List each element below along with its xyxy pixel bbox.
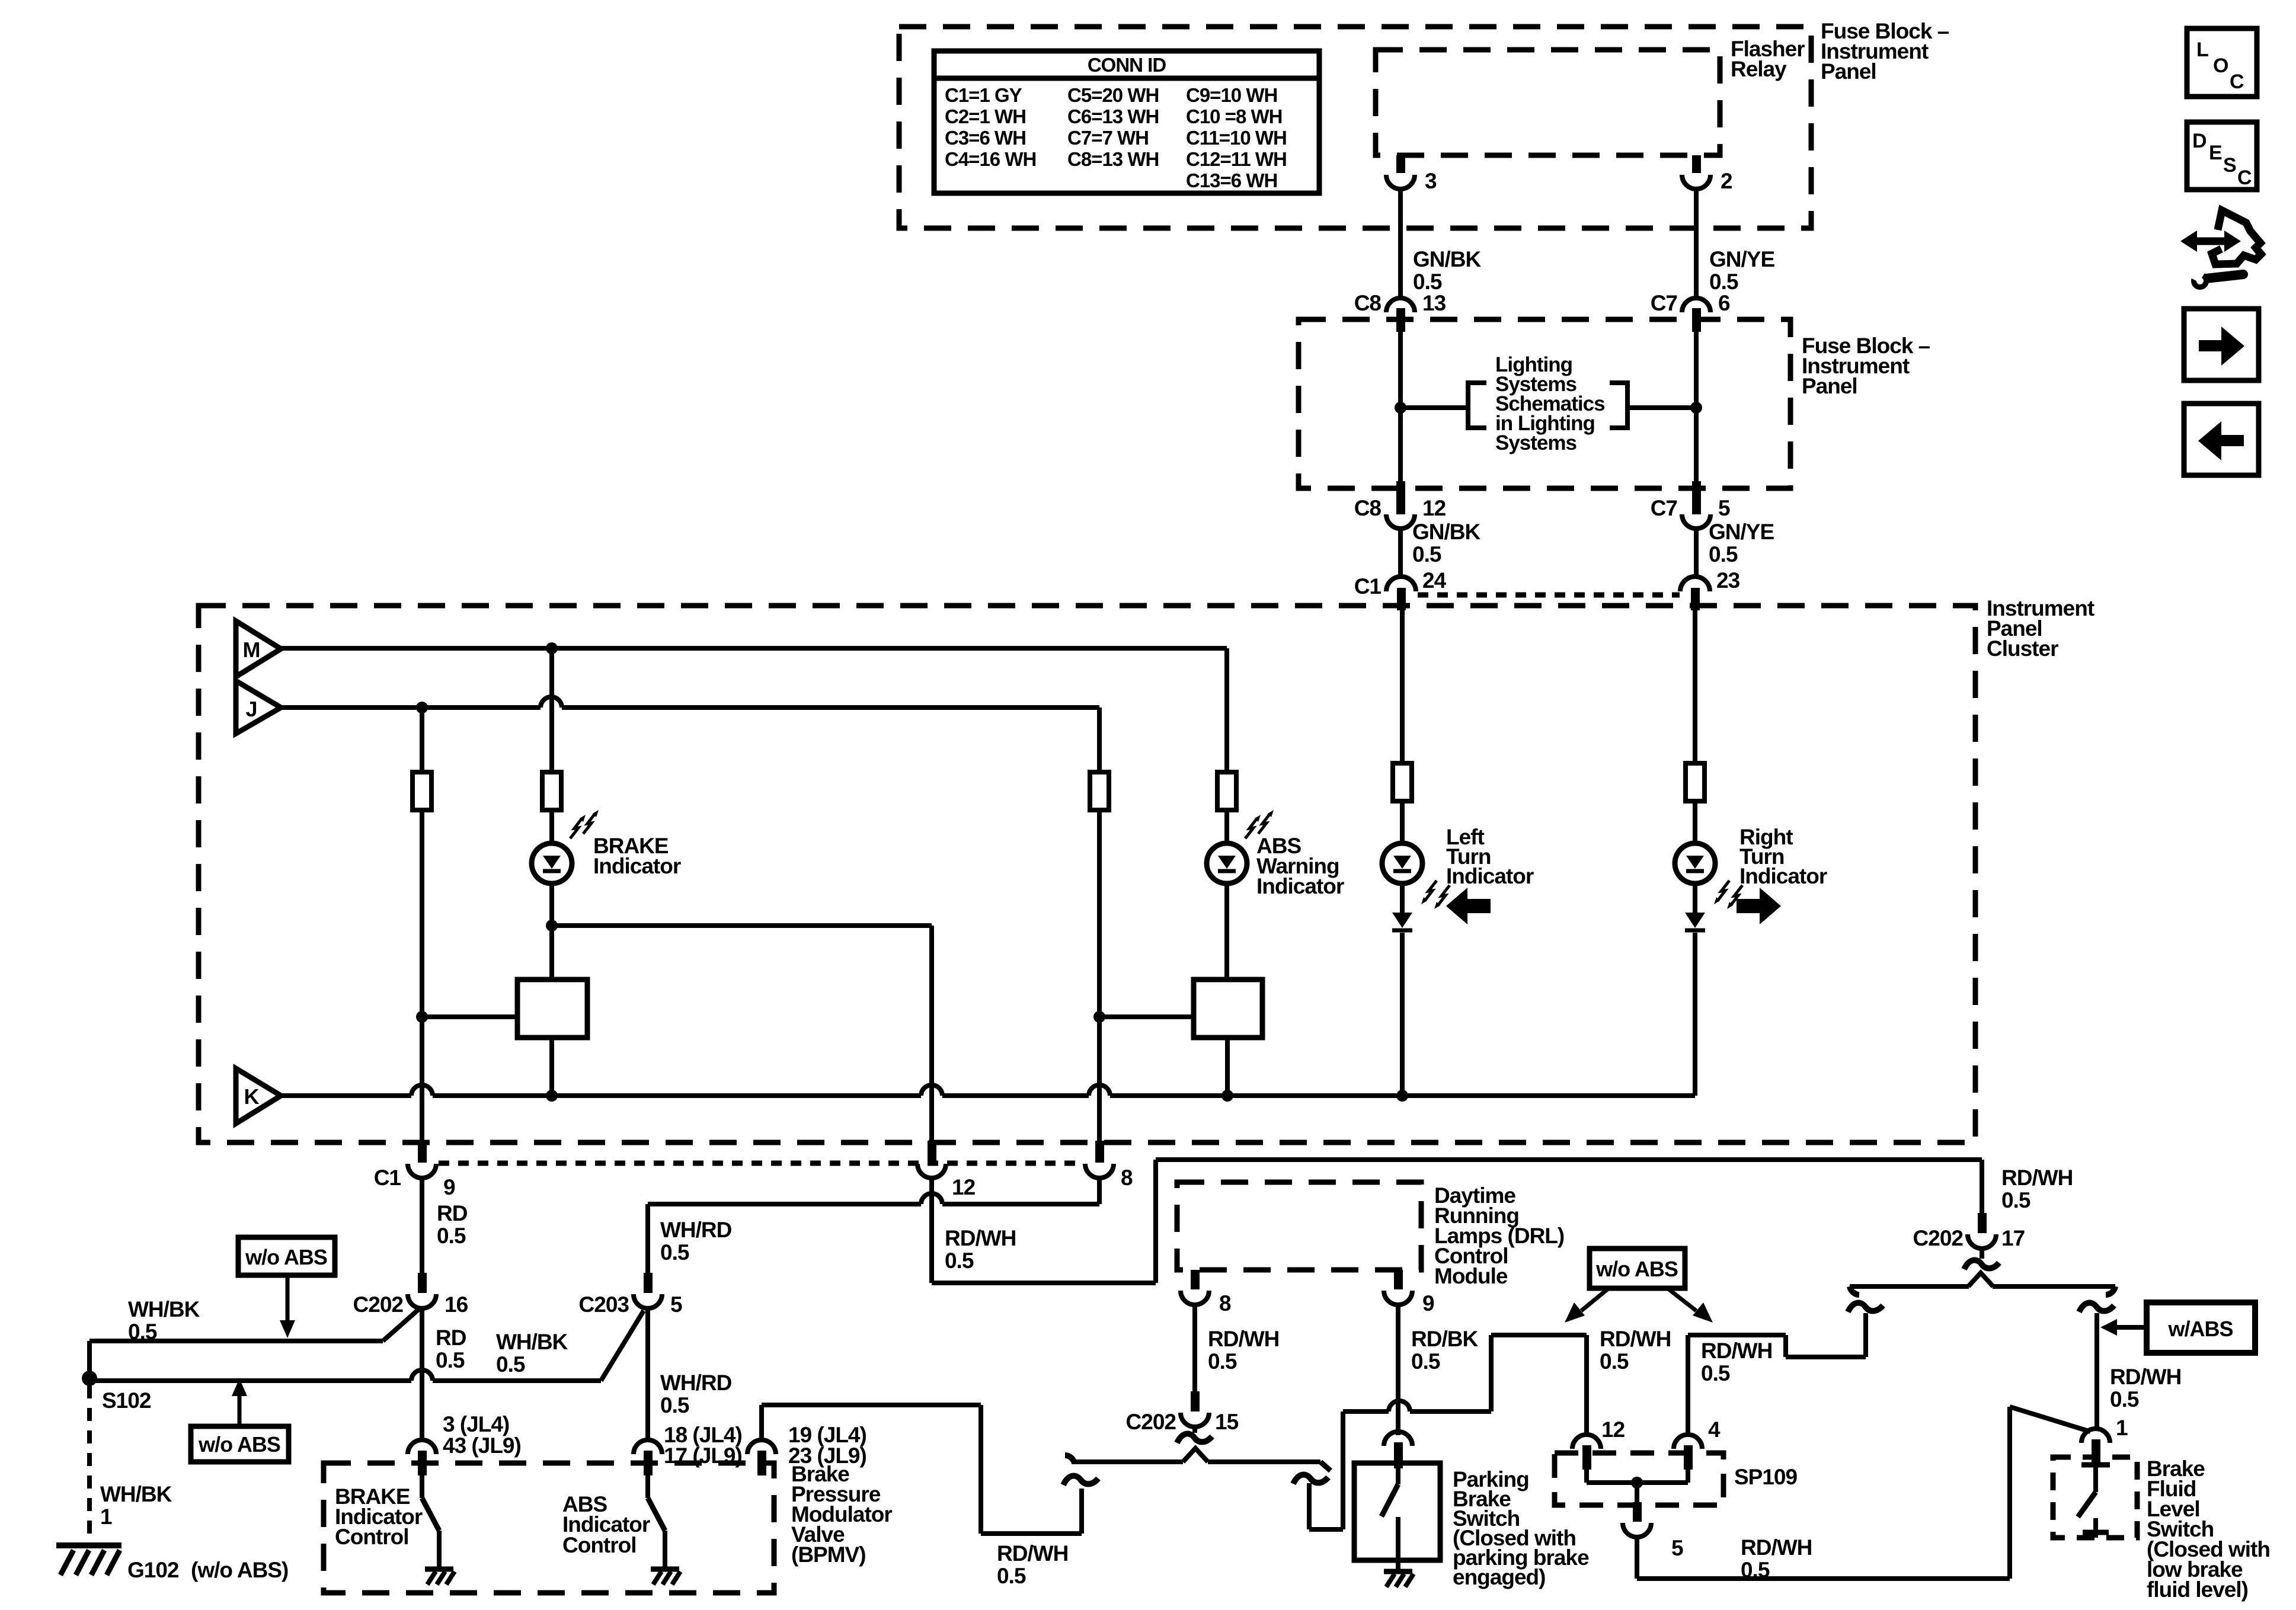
svg-text:GN/BK: GN/BK [1413, 247, 1482, 271]
right turn LED lightning bolts [1718, 881, 1729, 901]
svg-text:M: M [243, 638, 260, 662]
svg-text:S102: S102 [102, 1388, 151, 1413]
svg-text:w/ABS: w/ABS [2167, 1317, 2233, 1341]
svg-text:9: 9 [1422, 1291, 1434, 1315]
svg-text:C7=7 WH: C7=7 WH [1067, 127, 1149, 149]
svg-text:1: 1 [2116, 1416, 2128, 1440]
CONN ID table header divider [934, 76, 1319, 81]
wire resistor to right turn LED [1693, 801, 1697, 844]
wire brake branch upper [549, 648, 554, 772]
wire inside fuse block left [1398, 332, 1403, 482]
svg-text:C6=13 WH: C6=13 WH [1067, 105, 1159, 127]
svg-text:C: C [2237, 167, 2252, 189]
svg-text:Panel: Panel [1802, 374, 1857, 398]
rail w/ABS (left part) [1850, 1284, 1969, 1289]
inline hook rail2171 left [1850, 1286, 1859, 1295]
flasher relay pin 2 [1692, 155, 1701, 173]
rail peak under C202-17 [1968, 1273, 1993, 1286]
svg-text:RD/WH: RD/WH [1741, 1535, 1812, 1560]
wire split to SP109 pin 12 [1584, 1335, 1589, 1435]
diagonal into brake fluid pin 1 [2010, 1407, 2090, 1432]
left arrow icon [1446, 888, 1491, 924]
svg-text:12: 12 [1601, 1417, 1625, 1442]
svg-text:WH/RD: WH/RD [660, 1218, 732, 1242]
SP109 pin 4 [1674, 1435, 1702, 1449]
junction dot brake output [546, 920, 558, 932]
wire C202-17 drop [1980, 1160, 1984, 1213]
svg-text:C7: C7 [1651, 496, 1677, 520]
svg-text:C203: C203 [579, 1292, 629, 1317]
junction dot x1855 module2 tap [1093, 1011, 1105, 1023]
svg-text:fluid level): fluid level) [2147, 1577, 2248, 1602]
wire long RD/WH rail to C202-17 [1156, 1157, 1982, 1162]
connector C1 pin 12 [928, 1141, 936, 1163]
svg-text:G102: G102 [127, 1558, 179, 1582]
wire GN/YE pin2 to C7-6 [1694, 189, 1699, 299]
junction dot K at brake module [546, 1090, 558, 1102]
svg-text:Panel: Panel [1821, 59, 1876, 84]
left turn LED lightning bolts [1425, 881, 1437, 901]
svg-text:C12=11 WH: C12=11 WH [1186, 148, 1287, 170]
DRL pin 8 [1191, 1270, 1200, 1289]
svg-text:w/o ABS: w/o ABS [245, 1245, 327, 1269]
junction dot left fuse wire [1395, 402, 1406, 414]
wire up to w/o ABS split [1489, 1335, 1494, 1411]
svg-text:0.5: 0.5 [1208, 1349, 1237, 1374]
svg-text:D: D [2192, 130, 2207, 152]
svg-text:8: 8 [1219, 1291, 1231, 1315]
ABS warning indicator LED [1207, 843, 1247, 884]
DRL pin 9 [1394, 1270, 1403, 1289]
w/ABS arrow [2113, 1325, 2144, 1330]
svg-text:C2=1 WH: C2=1 WH [945, 105, 1026, 127]
svg-text:23 (JL9): 23 (JL9) [788, 1443, 866, 1468]
wire to lighting systems note right [1627, 405, 1696, 410]
svg-text:WH/BK: WH/BK [128, 1297, 200, 1321]
wire M rail [281, 646, 1227, 651]
svg-text:C202: C202 [1913, 1226, 1964, 1250]
flasher relay dashed box [1376, 50, 1720, 155]
wire resistor to BRAKE LED [549, 810, 554, 844]
junction dot K at left turn [1396, 1090, 1408, 1102]
parking brake switch blade [1396, 1468, 1400, 1484]
wire C1-12 down [929, 1178, 934, 1283]
w/ABS callout box [2147, 1302, 2255, 1353]
svg-text:Control: Control [562, 1533, 637, 1557]
wire M corner branch x2070 upper [1224, 648, 1229, 772]
svg-text:0.5: 0.5 [496, 1352, 525, 1377]
svg-text:0.5: 0.5 [660, 1240, 689, 1265]
connector pin 18(JL4)/17(JL9) [634, 1440, 662, 1454]
wire line1 corner down to S102 [87, 1341, 92, 1378]
brake fluid pin 1 connector [2081, 1429, 2110, 1443]
wire left turn LED to diode [1400, 884, 1405, 913]
wire right turn diode to K [1693, 933, 1697, 1096]
svg-text:0.5: 0.5 [660, 1393, 689, 1417]
svg-text:C202: C202 [353, 1292, 404, 1317]
svg-text:17: 17 [2001, 1226, 2025, 1250]
svg-text:L: L [2196, 39, 2208, 61]
svg-text:13: 13 [1422, 291, 1446, 315]
junction dot M rail at brake branch [546, 642, 558, 654]
car diagnosis icon [2212, 210, 2261, 264]
resistor x1855 [1090, 772, 1109, 810]
svg-text:Relay: Relay [1731, 57, 1787, 81]
right turn indicator LED [1675, 843, 1715, 884]
svg-text:2: 2 [1721, 169, 1732, 193]
wire WH/BK line1 [89, 1339, 383, 1343]
svg-text:Indicator: Indicator [1256, 874, 1344, 898]
brake indicator control switch [420, 1475, 424, 1498]
brake fluid switch contacts [2081, 1462, 2110, 1468]
svg-text:J: J [245, 697, 257, 721]
wire J rail segment 1 [281, 705, 541, 710]
rail RD/WH bottom (right part) [1208, 1459, 1320, 1464]
svg-text:RD/WH: RD/WH [997, 1541, 1068, 1566]
wire inside fuse block right [1694, 332, 1699, 482]
svg-text:Control: Control [335, 1525, 409, 1549]
ABS LED lightning bolts [1245, 818, 1257, 838]
connector C7 pin 5 [1692, 481, 1701, 514]
left turn indicator LED [1382, 843, 1422, 884]
wire WH/RD C203-5 down to BPMV pin [645, 1308, 650, 1442]
BRAKE indicator LED [532, 843, 572, 884]
CONN ID table box [934, 51, 1319, 193]
svg-text:C202: C202 [1126, 1410, 1176, 1434]
resistor x712 [412, 772, 431, 810]
wire module1 bottom to K [549, 1038, 554, 1096]
svg-text:12: 12 [1422, 496, 1446, 520]
svg-text:C8=13 WH: C8=13 WH [1067, 148, 1159, 170]
BRAKE LED lightning bolts [570, 818, 582, 838]
instrument panel cluster dashed box [199, 606, 1975, 1142]
wire right turn branch upper [1693, 610, 1697, 763]
wire pin19 up and over [759, 1405, 764, 1440]
svg-text:0.5: 0.5 [2001, 1188, 2030, 1212]
svg-text:w/o ABS: w/o ABS [198, 1432, 280, 1457]
svg-text:S: S [2223, 154, 2236, 177]
wire module1 left tap [422, 1014, 517, 1019]
svg-text:0.5: 0.5 [1709, 270, 1738, 294]
svg-text:engaged): engaged) [1453, 1565, 1545, 1589]
wire RD C1-9 to C202-16 [420, 1178, 424, 1273]
fuse block instrument panel (top) dashed box [899, 27, 1811, 228]
svg-text:CONN ID: CONN ID [1088, 54, 1166, 76]
svg-text:5: 5 [1718, 496, 1730, 520]
left arrow icon box [2184, 404, 2259, 475]
svg-text:0.5: 0.5 [128, 1320, 157, 1344]
svg-text:0.5: 0.5 [1411, 1349, 1440, 1374]
connector C8 pin 12 [1396, 481, 1405, 514]
svg-text:Indicator: Indicator [593, 854, 681, 878]
wire GN/BK C8-12 to C1-24 [1398, 526, 1403, 577]
inline hook rail2171 right [2106, 1286, 2115, 1295]
wire branch x712 upper [420, 708, 424, 772]
svg-text:C10 =8 WH: C10 =8 WH [1186, 105, 1282, 127]
svg-text:23: 23 [1716, 568, 1740, 593]
svg-text:SP109: SP109 [1734, 1465, 1798, 1489]
connector C8 pin 13 [1386, 298, 1415, 312]
svg-text:C8: C8 [1354, 496, 1382, 520]
inline hook under C202-15 [1192, 1426, 1197, 1433]
wire WH/BK dashed to G102 [87, 1385, 92, 1541]
wire C1-8 to WH/RD corner [942, 1202, 1099, 1206]
module 1 box [517, 980, 587, 1038]
wire to lighting systems note left [1400, 405, 1468, 410]
svg-text:C1=1 GY: C1=1 GY [945, 84, 1022, 106]
connector triangle M [236, 621, 281, 677]
flasher relay pin 3 [1396, 155, 1405, 173]
svg-text:w/o ABS: w/o ABS [1595, 1257, 1678, 1281]
rail peak under C202-15 [1183, 1448, 1208, 1462]
brake fluid level switch dashed box [2053, 1457, 2137, 1538]
SP109 dashed box [1555, 1453, 1723, 1505]
svg-text:5: 5 [1671, 1536, 1683, 1560]
wire J corner branch x1855 [1097, 708, 1102, 772]
svg-text:C8: C8 [1354, 291, 1382, 315]
svg-text:0.5: 0.5 [997, 1564, 1026, 1588]
wire RD/WH SP109-5 bottom run [1635, 1537, 1639, 1579]
wire brake output to pin12 branch [552, 923, 932, 928]
svg-text:O: O [2213, 55, 2228, 77]
wire WH/BK line2 [89, 1378, 411, 1383]
rail w/ABS (right part) [1993, 1284, 2115, 1289]
bracket right [1610, 383, 1627, 428]
svg-text:12: 12 [952, 1175, 976, 1199]
svg-text:RD/WH: RD/WH [1600, 1327, 1671, 1351]
wire rail to brake fluid pin 1 [2094, 1313, 2099, 1429]
w/o ABS arrow left [1581, 1289, 1607, 1311]
SP109 stem to pin 5 [1635, 1483, 1639, 1506]
module 2 box [1194, 980, 1262, 1038]
w/o ABS callout box 1 [238, 1237, 335, 1275]
diagonal WH/BK into C202-16 [383, 1310, 418, 1341]
wire parking brake to ground [1396, 1560, 1400, 1570]
svg-text:WH/BK: WH/BK [496, 1330, 568, 1354]
svg-text:4: 4 [1708, 1417, 1721, 1442]
w/o ABS arrow right [1669, 1289, 1696, 1311]
svg-text:RD: RD [436, 1326, 466, 1350]
w/o ABS callout box 2 [191, 1426, 289, 1462]
svg-text:0.5: 0.5 [1412, 542, 1441, 566]
wire GN/YE C7-5 to C1-23 [1694, 526, 1699, 577]
wire BRAKE LED to module1 [549, 884, 554, 980]
wire resistor to left turn LED [1400, 801, 1405, 844]
svg-text:0.5: 0.5 [1701, 1361, 1730, 1385]
connector C202 pin 16 [418, 1273, 427, 1293]
connector C1 pin 23 [1680, 577, 1710, 591]
resistor brake branch [542, 772, 561, 810]
wire J rail segment 2 [562, 705, 1099, 710]
svg-text:0.5: 0.5 [437, 1224, 466, 1248]
svg-text:RD/WH: RD/WH [945, 1226, 1016, 1250]
svg-text:16: 16 [445, 1292, 468, 1317]
ground abs indicator control [651, 1567, 679, 1572]
svg-text:WH/BK: WH/BK [100, 1482, 172, 1506]
svg-text:17 (JL9): 17 (JL9) [664, 1443, 742, 1468]
junction dot right fuse wire [1690, 402, 1702, 414]
svg-text:RD/WH: RD/WH [2110, 1365, 2181, 1389]
wire C1-12 path bottom jog [932, 1281, 1156, 1285]
w/o ABS arrow 2 [238, 1394, 242, 1426]
dotted line between C1-24 and C1-23 [1418, 593, 1680, 598]
inline connector at rail left end [1063, 1476, 1098, 1485]
wire RD/WH DRL-8 to C202-15 [1192, 1305, 1197, 1391]
svg-text:C11=10 WH: C11=10 WH [1186, 127, 1287, 149]
svg-text:C9=10 WH: C9=10 WH [1186, 84, 1277, 106]
connector C203 pin 5 [644, 1273, 653, 1293]
svg-text:Indicator: Indicator [1739, 864, 1827, 888]
wire left turn branch upper [1400, 610, 1405, 763]
SP109 pin 5 [1633, 1502, 1642, 1522]
svg-text:C7: C7 [1651, 291, 1677, 315]
left turn diode [1392, 913, 1412, 928]
SP109 pin 12 [1572, 1435, 1601, 1449]
wire pin12 branch vertical [929, 926, 934, 1141]
ground G102 [56, 1542, 121, 1548]
connector C7 pin 6 [1682, 298, 1710, 312]
ground brake indicator control [425, 1567, 453, 1572]
fuse block instrument panel (middle) dashed box [1299, 319, 1790, 488]
svg-text:C4=16 WH: C4=16 WH [945, 148, 1036, 170]
wire hook down and over [1307, 1483, 1312, 1529]
resistor right turn [1686, 763, 1705, 801]
svg-text:3: 3 [1425, 169, 1437, 193]
svg-text:3 (JL4): 3 (JL4) [443, 1412, 509, 1436]
wire K rail [281, 1093, 411, 1098]
wire right turn LED to diode [1693, 884, 1697, 913]
svg-text:5: 5 [670, 1292, 682, 1317]
inline hook under C202-17 [1980, 1247, 1984, 1259]
svg-text:0.5: 0.5 [2110, 1387, 2139, 1411]
connector pin 3(JL4)/43(JL9) [408, 1440, 436, 1454]
wire riser to rail 2171 [1863, 1313, 1868, 1357]
svg-text:K: K [244, 1084, 260, 1109]
wire resistor to ABS LED [1224, 810, 1229, 844]
abs indicator control switch [645, 1475, 650, 1498]
svg-text:0.5: 0.5 [1709, 542, 1738, 566]
LOC icon box [2187, 28, 2257, 97]
svg-text:9: 9 [443, 1175, 455, 1199]
svg-text:Indicator: Indicator [1446, 864, 1534, 888]
SP109 internal bus [1584, 1470, 1589, 1483]
svg-text:(BPMV): (BPMV) [791, 1542, 866, 1567]
splice S102 [82, 1371, 97, 1386]
wire SP109 pin4 jog right [1686, 1335, 1690, 1435]
rail RD/WH bottom (left part) [1072, 1459, 1183, 1464]
svg-text:Cluster: Cluster [1987, 636, 2058, 661]
connector C1 pin 8 [1095, 1141, 1104, 1163]
dotted line along C1 bottom pins [439, 1161, 1083, 1166]
wire RD C202-16 down to BPMV pin [420, 1308, 424, 1442]
connector C1 pin 9 [418, 1141, 427, 1163]
wire module2 left tap [1099, 1014, 1194, 1019]
svg-text:RD/WH: RD/WH [1701, 1339, 1772, 1363]
svg-text:RD: RD [437, 1201, 468, 1225]
SP109 junction dot [1631, 1477, 1643, 1489]
wire module2 bottom to K [1225, 1038, 1230, 1096]
ground parking brake switch [1384, 1569, 1412, 1574]
svg-text:C13=6 WH: C13=6 WH [1186, 169, 1277, 191]
inline hook right of rail [1293, 1475, 1328, 1484]
svg-text:(w/o ABS): (w/o ABS) [191, 1558, 288, 1582]
resistor x2070 [1217, 772, 1236, 810]
connector C202 pin 15 [1191, 1391, 1200, 1411]
svg-text:0.5: 0.5 [1600, 1349, 1629, 1374]
junction dot x712 module1 tap [416, 1011, 428, 1023]
wire branch x712 lower [420, 810, 424, 1141]
svg-text:GN/YE: GN/YE [1709, 247, 1774, 271]
wire RD/BK DRL-9 down [1396, 1305, 1400, 1435]
right arrow icon [1737, 888, 1781, 924]
parking brake switch box [1354, 1463, 1440, 1560]
connector C202 pin 17 [1978, 1213, 1987, 1233]
svg-text:43 (JL9): 43 (JL9) [443, 1433, 521, 1458]
w/o ABS callout box 3 [1590, 1249, 1685, 1288]
junction dot K at abs module [1221, 1090, 1233, 1102]
connector pin 19(JL4)/23(JL9) [747, 1440, 776, 1454]
wire WH/RD vertical [645, 1204, 650, 1273]
wire pin4 top jog [1688, 1333, 1786, 1337]
svg-text:C1: C1 [374, 1166, 401, 1190]
connector triangle K [236, 1068, 281, 1124]
wire C1-8 down [1097, 1178, 1102, 1204]
hop J rail over brake branch [541, 697, 562, 708]
svg-text:RD/WH: RD/WH [1208, 1327, 1279, 1351]
svg-text:8: 8 [1121, 1166, 1133, 1190]
connector triangle J [236, 681, 281, 734]
brake-abs indicator control dashed box [324, 1463, 774, 1593]
svg-text:0.5: 0.5 [945, 1249, 974, 1273]
svg-text:RD/WH: RD/WH [2001, 1166, 2073, 1190]
svg-text:WH/RD: WH/RD [660, 1371, 732, 1395]
svg-text:C1: C1 [1354, 574, 1382, 598]
svg-text:C3=6 WH: C3=6 WH [945, 127, 1026, 149]
svg-text:Systems: Systems [1495, 431, 1577, 454]
svg-text:C: C [2230, 71, 2244, 93]
svg-text:0.5: 0.5 [1413, 270, 1442, 294]
junction dot J rail at x712 [416, 702, 428, 713]
DESC icon box [2187, 122, 2257, 190]
diagonal WH/BK into C203-5 [601, 1311, 644, 1381]
svg-text:GN/YE: GN/YE [1709, 520, 1774, 544]
resistor left turn [1393, 763, 1412, 801]
wire ABS LED to module2 [1224, 884, 1229, 980]
w/o ABS arrow 1 [286, 1275, 290, 1323]
svg-text:6: 6 [1718, 291, 1730, 315]
rail RD/WH y2382 [1343, 1409, 1389, 1414]
svg-text:0.5: 0.5 [1741, 1558, 1770, 1582]
right arrow icon box [2184, 309, 2259, 380]
svg-text:15: 15 [1215, 1410, 1239, 1434]
parking brake switch connector [1384, 1432, 1412, 1446]
wire GN/BK pin3 to C8-13 [1398, 189, 1403, 299]
svg-text:RD/BK: RD/BK [1411, 1327, 1478, 1351]
svg-text:0.5: 0.5 [436, 1348, 465, 1372]
svg-text:Module: Module [1434, 1264, 1508, 1288]
daytime running lamps DRL dashed box [1177, 1182, 1421, 1270]
wire left turn diode to K [1400, 933, 1405, 1096]
svg-text:C5=20 WH: C5=20 WH [1067, 84, 1159, 106]
right turn diode [1685, 913, 1705, 928]
svg-text:1: 1 [100, 1505, 112, 1529]
svg-text:E: E [2209, 142, 2222, 164]
svg-text:24: 24 [1422, 568, 1447, 593]
svg-text:GN/BK: GN/BK [1412, 520, 1481, 544]
wire x1855 lower [1097, 810, 1102, 1141]
connector C1 pin 24 [1386, 577, 1416, 591]
bracket left [1468, 383, 1486, 428]
